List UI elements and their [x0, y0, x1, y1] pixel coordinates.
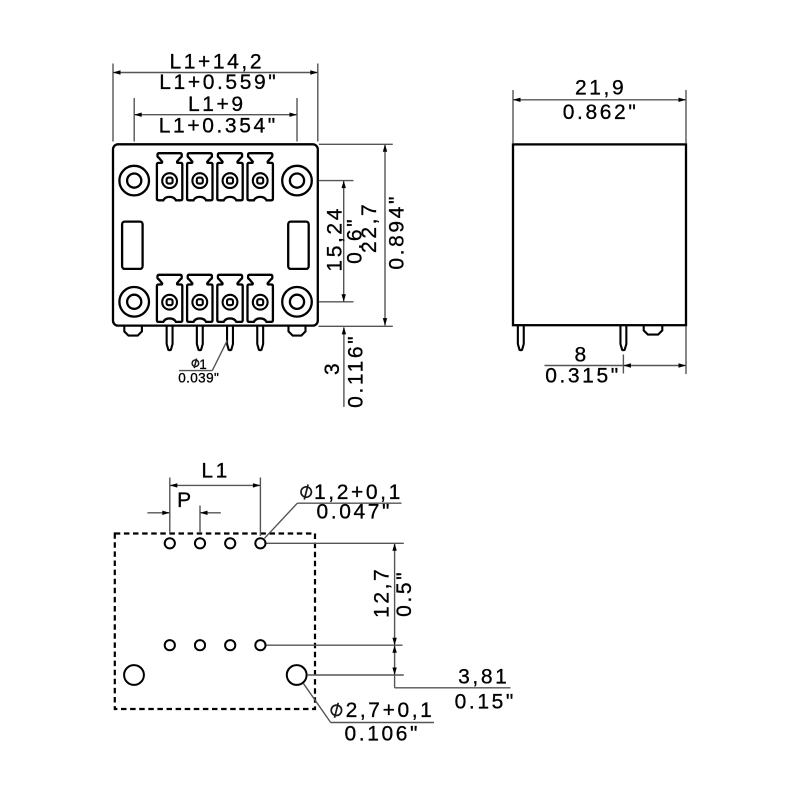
side view: left solder pin — [518, 322, 524, 350]
drilling plan: pin hole 2 top row — [195, 538, 205, 548]
front view: terminal contact 1 bottom row — [157, 275, 182, 322]
drilling plan: fixing hole left — [124, 665, 144, 685]
svg-text:0.116": 0.116" — [344, 334, 367, 408]
drilling plan: pin hole 1 top row — [165, 538, 175, 548]
svg-text:L1+14,2: L1+14,2 — [169, 50, 264, 73]
side view: right solder pin — [620, 322, 626, 350]
dimension 21,9 / 0.86 (side view depth) — [513, 76, 686, 143]
svg-text:0.894": 0.894" — [385, 194, 408, 270]
drilling plan: pin hole 3 top row — [225, 538, 235, 548]
dimension 3,81 / 0.15 (fixing hole offset) — [308, 645, 516, 714]
drilling plan: pin hole 3 second row — [225, 640, 235, 650]
dimension L1+9 / L1+0.35 (flange hole spacing) — [134, 93, 297, 141]
label fixing hole diameter 2,7+0,1 / 0.11 with leader — [303, 683, 434, 745]
drilling plan: pin hole 2 second row — [195, 640, 205, 650]
drilling plan: PCB outline (dashed) — [115, 534, 315, 710]
svg-text:8: 8 — [574, 344, 588, 367]
svg-text:L1+9: L1+9 — [188, 93, 246, 116]
side view: housing outline — [513, 144, 686, 325]
drilling plan: fixing hole right — [287, 665, 307, 685]
drilling plan: pin hole 1 second row — [165, 640, 175, 650]
front view: left mounting foot — [124, 322, 142, 336]
dimension 12,7 / 0.5 (row spacing) — [267, 543, 417, 645]
drilling plan: pin hole 4 second row — [255, 640, 265, 650]
dimension 15,24 / 0.6 (row spacing, right of front view) — [319, 181, 367, 302]
dimension 3 / 0.12 (pin length below body) — [321, 327, 367, 408]
label pin diameter 1 / 0.04 with leader — [178, 340, 227, 385]
front view: flange hole top-left — [119, 166, 149, 196]
svg-text:12,7: 12,7 — [371, 567, 394, 618]
svg-text:21,9: 21,9 — [575, 76, 626, 99]
front view: terminal contact 2 top row — [187, 153, 212, 200]
front view: right side slot — [288, 222, 309, 269]
dimension 8 / 0.32 (pin to edge distance) — [545, 327, 687, 388]
svg-text:0.106": 0.106" — [344, 723, 420, 746]
front view: terminal contact 4 top row — [248, 153, 273, 200]
svg-text:0.15": 0.15" — [455, 691, 516, 714]
svg-text:L1+0.559": L1+0.559" — [159, 71, 278, 94]
svg-text:2,7+0,1: 2,7+0,1 — [346, 699, 435, 722]
svg-text:0.862": 0.862" — [563, 101, 639, 124]
front view: terminal contact 1 top row — [157, 153, 182, 200]
front view: left side slot — [122, 222, 143, 269]
front view: right mounting foot — [289, 322, 306, 336]
svg-text:22,7: 22,7 — [358, 202, 381, 253]
dimension L1+14,2 / L1+0.56 (front overall width) — [113, 50, 318, 141]
svg-text:0.047": 0.047" — [316, 501, 392, 524]
drilling plan: pin hole 4 top row — [255, 538, 265, 548]
front view: connector body outline — [113, 144, 318, 325]
front view: solder pins row — [167, 322, 264, 350]
dimension L1 (hole group width) — [170, 459, 261, 536]
dimension 22,7 / 0.89 (front overall height) — [319, 144, 409, 326]
svg-text:L1: L1 — [201, 459, 230, 482]
front view: terminal contact 3 top row — [217, 153, 242, 200]
svg-text:0.315": 0.315" — [545, 365, 621, 388]
dimension P (pitch) — [147, 489, 220, 533]
svg-text:0.039": 0.039" — [178, 370, 219, 385]
front view: terminal contact 4 bottom row — [248, 275, 273, 322]
front view: flange hole bottom-right — [282, 287, 312, 317]
front view: terminal contact 2 bottom row — [187, 275, 212, 322]
svg-text:3,81: 3,81 — [458, 666, 509, 689]
svg-text:P: P — [177, 489, 194, 512]
svg-text:0.5": 0.5" — [393, 570, 416, 617]
front view: terminal contact 3 bottom row — [217, 275, 242, 322]
front view: flange hole bottom-left — [119, 287, 149, 317]
svg-text:L1+0.354": L1+0.354" — [159, 114, 278, 137]
svg-text:3: 3 — [321, 361, 344, 375]
label hole diameter 1,2+0,1 / 0.05 with leader — [265, 481, 403, 538]
side view: bottom latch foot — [644, 322, 663, 335]
front view: flange hole top-right — [282, 166, 312, 196]
